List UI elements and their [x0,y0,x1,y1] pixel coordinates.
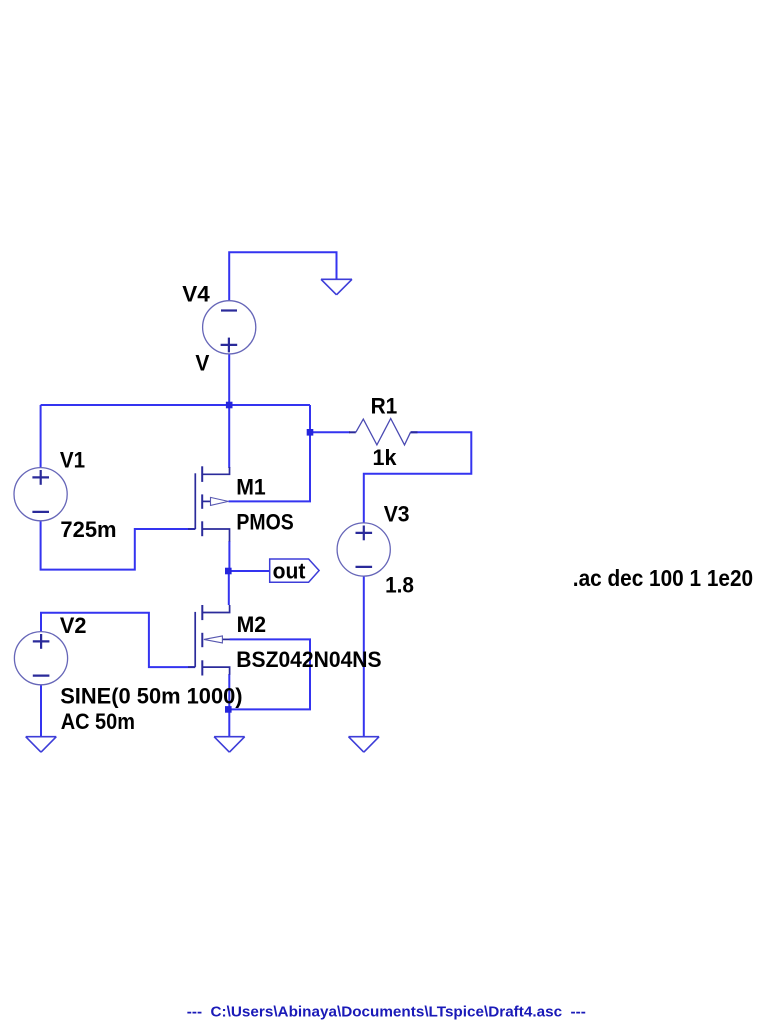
svg-text:out: out [273,558,306,583]
svg-text:BSZ042N04NS: BSZ042N04NS [236,647,381,672]
svg-text:--- C:\Users\Abinaya\Document: --- C:\Users\Abinaya\Documents\LTspice\D… [187,1005,586,1021]
svg-text:AC 50m: AC 50m [61,709,135,734]
svg-text:PMOS: PMOS [236,510,293,535]
svg-text:725m: 725m [60,517,116,542]
svg-text:V4: V4 [182,282,210,307]
svg-text:V2: V2 [60,613,87,638]
svg-text:V: V [195,350,209,375]
svg-text:R1: R1 [371,393,398,418]
svg-text:.ac dec 100 1 1e20: .ac dec 100 1 1e20 [573,565,753,591]
svg-text:V1: V1 [60,447,85,472]
svg-text:1k: 1k [373,445,398,470]
svg-text:1.8: 1.8 [385,573,414,598]
svg-text:M2: M2 [237,612,267,637]
svg-text:V3: V3 [384,502,410,527]
svg-text:M1: M1 [236,475,266,500]
svg-text:SINE(0 50m 1000): SINE(0 50m 1000) [60,683,242,708]
